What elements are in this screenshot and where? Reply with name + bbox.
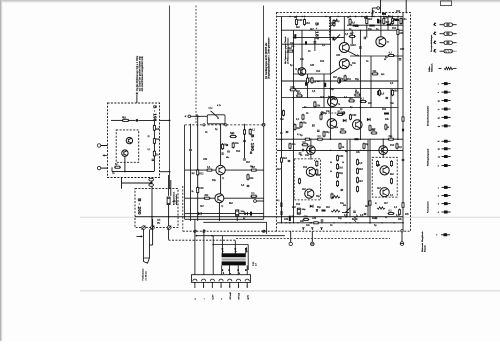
svg-text:Potentiometer: Potentiometer [427,201,430,213]
svg-text:C9: C9 [300,155,302,157]
svg-text:50p: 50p [336,21,341,23]
svg-text:50p: 50p [316,196,321,198]
svg-text:T2: T2 [221,206,223,208]
svg-text:30p: 30p [157,222,160,224]
svg-text:3: 3 [438,204,439,206]
svg-text:C30: C30 [304,217,309,219]
svg-text:10n: 10n [403,19,408,21]
svg-text:50p: 50p [338,218,343,220]
svg-text:22: 22 [148,136,150,138]
svg-text:NF heiß: NF heiß [230,291,232,299]
svg-text:R12: R12 [236,151,241,153]
svg-text:C30: C30 [331,23,336,25]
svg-text:1k: 1k [355,90,357,92]
svg-text:5k: 5k [192,191,194,193]
svg-text:50p: 50p [355,92,360,94]
svg-text:R12: R12 [382,109,387,111]
svg-text:B - 200: B - 200 [137,198,142,215]
svg-text:50p: 50p [326,132,331,134]
svg-text:2k: 2k [330,171,332,173]
svg-text:C30: C30 [199,188,204,190]
svg-text:R12: R12 [296,204,301,206]
svg-text:C30: C30 [203,159,208,161]
svg-text:R12: R12 [390,145,395,147]
svg-text:2: 2 [438,195,439,197]
svg-text:1k: 1k [347,17,349,19]
svg-text:C30: C30 [352,115,357,117]
svg-text:38: 38 [226,145,228,147]
svg-text:Eintakt-Wechselschalter: Eintakt-Wechselschalter [427,105,430,126]
svg-text:B - 190: B - 190 [250,134,255,151]
svg-text:C21: C21 [157,220,160,222]
svg-text:ws: ws [438,126,440,128]
svg-text:R12: R12 [320,61,325,63]
svg-text:2 x 20 mm: 2 x 20 mm [145,271,147,281]
svg-text:R12: R12 [338,112,343,114]
svg-text:50p: 50p [355,79,360,81]
svg-text:10n: 10n [280,119,285,121]
svg-text:B - 198: B - 198 [153,105,158,121]
svg-text:40n: 40n [226,157,229,159]
svg-text:0,1: 0,1 [148,149,151,151]
svg-text:Elektrostat. Klangblende: Elektrostat. Klangblende [421,232,424,253]
svg-text:T7: T7 [387,42,389,44]
svg-text:0,1: 0,1 [385,217,387,219]
svg-text:gn: gn [438,149,440,151]
svg-text:T5: T5 [350,45,352,47]
svg-text:30: 30 [384,59,386,61]
svg-text:C30: C30 [339,156,344,158]
svg-text:50p: 50p [212,180,217,182]
svg-text:abgeschaltet: abgeschaltet [175,194,178,205]
svg-text:0,22: 0,22 [230,133,234,135]
svg-text:C30: C30 [316,175,321,177]
svg-text:10n: 10n [352,63,357,65]
svg-text:10n: 10n [326,111,331,113]
svg-text:R12: R12 [347,79,352,81]
svg-text:10n: 10n [156,139,161,141]
svg-text:ws: ws [223,272,225,274]
svg-text:R60: R60 [343,205,346,207]
svg-text:mit anschmauert ausgelotet wdn: mit anschmauert ausgelotet wdn [141,56,144,92]
svg-text:a: a [314,160,315,162]
svg-text:Fernsprechleitungen: Fernsprechleitungen [430,35,433,52]
svg-text:Beipack: Beipack [424,245,426,252]
svg-text:C30: C30 [298,20,303,22]
svg-text:4,7k: 4,7k [217,105,221,107]
svg-text:NF kalt: NF kalt [238,293,241,300]
svg-text:22k: 22k [335,127,338,129]
svg-text:10n: 10n [306,225,311,227]
svg-text:R12: R12 [303,167,308,169]
svg-text:gn: gn [438,100,440,102]
svg-text:ge: ge [438,117,440,119]
svg-text:0,1: 0,1 [277,200,280,202]
svg-text:5k: 5k [330,162,332,164]
svg-text:R12: R12 [199,173,204,175]
svg-text:ro: ro [438,108,440,111]
svg-text:50p: 50p [317,207,322,209]
svg-text:4k7: 4k7 [317,81,320,83]
svg-text:100µ: 100µ [302,209,306,211]
svg-text:Ferritantenne: Ferritantenne [142,268,145,281]
svg-text:C30: C30 [312,218,317,220]
svg-text:a: a [236,251,238,252]
svg-text:T6: T6 [350,65,352,67]
svg-text:10k: 10k [250,166,253,168]
svg-text:10n: 10n [235,143,240,145]
svg-text:50p: 50p [368,29,373,31]
svg-text:10n: 10n [305,155,310,157]
svg-text:e: e [438,84,439,86]
svg-text:C30: C30 [290,87,295,89]
svg-text:1k: 1k [342,162,344,164]
svg-text:10n: 10n [390,103,395,105]
svg-text:T4: T4 [338,104,340,106]
svg-text:Wellensch.: Wellensch. [431,63,433,72]
svg-text:T1: T1 [222,178,224,180]
svg-text:50p: 50p [303,123,308,125]
svg-text:R40: R40 [381,74,384,76]
svg-text:T3: T3 [295,69,297,71]
svg-text:C30: C30 [284,219,289,221]
svg-text:Alle Spannungen gegen Chassis: Alle Spannungen gegen Chassis [284,37,287,64]
svg-text:2k: 2k [364,17,366,19]
svg-text:Umgangsspannungen n. Serie gem: Umgangsspannungen n. Serie gemessen [268,37,271,79]
svg-text:gn/sw: gn/sw [246,247,248,252]
svg-text:R12: R12 [316,71,321,73]
svg-text:50p: 50p [339,173,344,175]
svg-text:C30: C30 [336,55,341,57]
svg-text:4: 4 [438,212,439,214]
svg-text:10n: 10n [292,144,297,146]
svg-text:6,3V~: 6,3V~ [212,293,214,299]
svg-text:10n: 10n [340,203,345,205]
svg-text:Rückkopplungsspule: Rückkopplungsspule [428,149,430,166]
svg-text:R12: R12 [392,28,397,30]
svg-text:2k2: 2k2 [192,173,195,175]
svg-text:R12: R12 [400,49,405,51]
svg-text:1: 1 [438,187,439,189]
svg-text:C30: C30 [310,65,315,67]
svg-text:1k: 1k [292,216,294,218]
svg-text:R12: R12 [396,11,401,13]
svg-text:10n: 10n [290,43,295,45]
